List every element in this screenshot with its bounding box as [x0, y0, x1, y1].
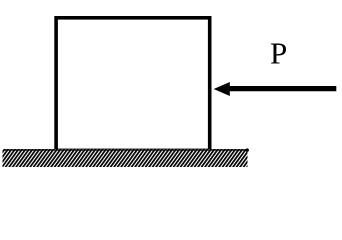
ground (hatched band): [3, 149, 248, 167]
force arrow P (shaft): [230, 86, 337, 91]
ground top line end cap: [246, 148, 249, 151]
svg-text:P: P: [270, 36, 287, 71]
ground top line: [5, 149, 246, 151]
force arrow P (head): [214, 82, 230, 96]
block (square body): [56, 18, 210, 151]
